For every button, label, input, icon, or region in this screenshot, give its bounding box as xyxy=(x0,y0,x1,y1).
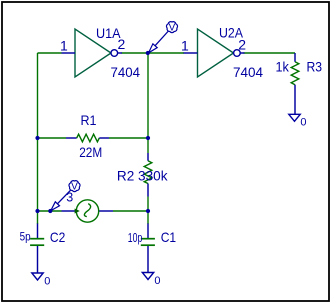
wire R2 bottom to node xyxy=(147,197,149,212)
junction node probe attach xyxy=(48,209,52,213)
svg-text:7404: 7404 xyxy=(111,64,141,80)
resistor R3 xyxy=(276,53,323,114)
voltage probe V3 bottom xyxy=(51,181,80,211)
svg-text:1k: 1k xyxy=(276,59,290,75)
op-amp U1A (7404 inverter) xyxy=(60,25,140,80)
resistor R1 xyxy=(66,112,109,160)
wire C1 node to cap xyxy=(147,211,149,224)
wire C2 node to cap xyxy=(37,211,39,224)
svg-text:7404: 7404 xyxy=(233,64,263,80)
voltage probe V top xyxy=(149,22,178,53)
capacitor C2 xyxy=(20,224,66,274)
svg-text:3: 3 xyxy=(66,190,73,204)
svg-text:10p: 10p xyxy=(128,230,143,245)
svg-text:C1: C1 xyxy=(161,229,177,245)
junction node bottom right xyxy=(146,209,150,213)
wire R1 left xyxy=(38,137,67,139)
wire U1A output to U2A input xyxy=(122,52,185,54)
capacitor C1 xyxy=(128,224,176,273)
op-amp U2A (7404 inverter) xyxy=(181,24,263,80)
svg-text:C2: C2 xyxy=(50,229,66,245)
svg-text:0: 0 xyxy=(154,275,160,287)
svg-text:1: 1 xyxy=(181,38,189,54)
wire U2A output to R3 corner xyxy=(244,52,296,54)
wire bottom left segment xyxy=(38,210,62,212)
svg-text:22M: 22M xyxy=(79,144,102,160)
junction node R1 left xyxy=(35,136,39,140)
AC source xyxy=(62,200,114,222)
junction node bottom left xyxy=(35,209,39,213)
svg-text:2: 2 xyxy=(118,36,126,52)
ground below C1 xyxy=(142,273,160,288)
svg-text:R2 330k: R2 330k xyxy=(117,167,169,183)
junction node at U1A output xyxy=(146,51,150,55)
wire left rail vertical xyxy=(37,53,39,211)
svg-text:1: 1 xyxy=(60,38,68,54)
wire bottom right segment xyxy=(113,210,148,212)
svg-text:0: 0 xyxy=(300,117,306,129)
svg-text:R3: R3 xyxy=(307,59,323,75)
resistor R2 xyxy=(117,153,169,197)
svg-text:2: 2 xyxy=(238,36,246,52)
svg-text:R1: R1 xyxy=(81,112,97,128)
wire R1 right xyxy=(109,137,148,139)
svg-text:0: 0 xyxy=(44,276,50,288)
wire right rail node to R2 xyxy=(147,53,149,153)
svg-text:5p: 5p xyxy=(20,230,31,244)
junction node R1 right xyxy=(146,136,150,140)
svg-text:V: V xyxy=(169,23,176,34)
ground below C2 xyxy=(32,273,51,288)
ground below R3 xyxy=(289,114,307,128)
wire U1A input horizontal xyxy=(38,52,62,54)
